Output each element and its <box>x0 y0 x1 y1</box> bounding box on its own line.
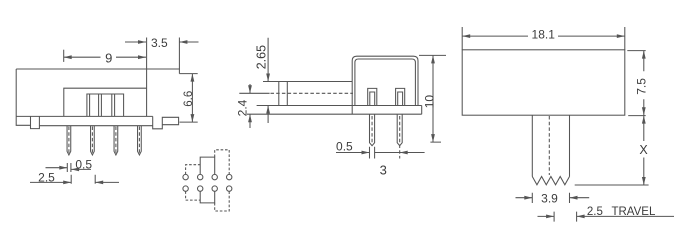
svg-text:3.9: 3.9 <box>541 191 558 205</box>
svg-text:2.5: 2.5 <box>587 206 603 218</box>
svg-text:X: X <box>639 143 648 157</box>
svg-text:0.5: 0.5 <box>75 157 92 171</box>
svg-text:18.1: 18.1 <box>532 27 556 41</box>
svg-text:3: 3 <box>380 163 387 178</box>
svg-text:0.5: 0.5 <box>336 139 353 153</box>
svg-text:10: 10 <box>423 95 437 109</box>
svg-text:2.65: 2.65 <box>254 45 268 69</box>
svg-text:6.6: 6.6 <box>183 91 195 107</box>
svg-text:TRAVEL: TRAVEL <box>611 206 655 218</box>
svg-text:9: 9 <box>105 51 112 66</box>
svg-text:3.5: 3.5 <box>151 36 168 50</box>
svg-text:7.5: 7.5 <box>635 78 649 95</box>
svg-text:2.5: 2.5 <box>38 170 55 184</box>
svg-text:2.4: 2.4 <box>235 99 249 116</box>
